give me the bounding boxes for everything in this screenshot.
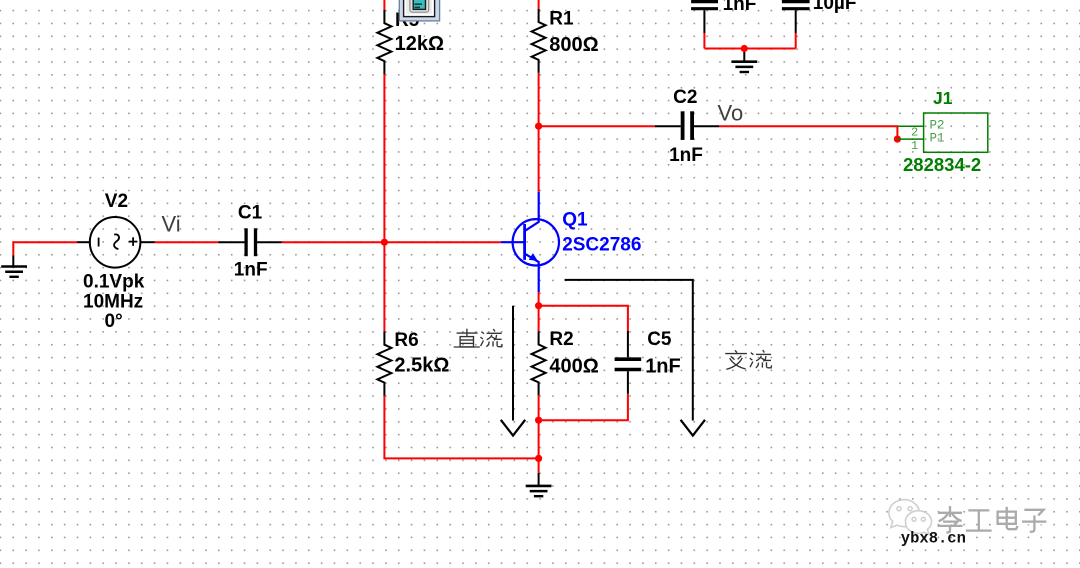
svg-text:C2: C2 xyxy=(673,87,697,108)
svg-text:ybx8.cn: ybx8.cn xyxy=(901,530,966,548)
svg-text:0°: 0° xyxy=(105,311,123,332)
svg-text:Q1: Q1 xyxy=(562,210,588,231)
svg-text:Vi: Vi xyxy=(162,212,181,237)
svg-text:0.1Vpk: 0.1Vpk xyxy=(83,271,145,292)
svg-text:10MHz: 10MHz xyxy=(83,292,143,313)
svg-text:10µF: 10µF xyxy=(813,0,857,14)
svg-text:P2: P2 xyxy=(930,119,945,133)
svg-text:J1: J1 xyxy=(933,88,953,108)
svg-text:1nF: 1nF xyxy=(669,145,703,166)
svg-text:1nF: 1nF xyxy=(645,355,681,377)
svg-text:2: 2 xyxy=(911,125,918,139)
svg-text:C5: C5 xyxy=(647,329,672,350)
svg-text:P1: P1 xyxy=(930,132,945,146)
svg-text:R1: R1 xyxy=(549,9,574,30)
svg-text:R2: R2 xyxy=(549,329,573,350)
svg-text:C1: C1 xyxy=(238,202,263,223)
svg-text:1: 1 xyxy=(911,139,918,153)
svg-text:R6: R6 xyxy=(394,330,418,351)
svg-text:1nF: 1nF xyxy=(234,260,268,281)
svg-text:282834-2: 282834-2 xyxy=(903,154,981,175)
svg-text:1nF: 1nF xyxy=(723,0,757,15)
svg-text:Vo: Vo xyxy=(718,101,744,126)
svg-text:400Ω: 400Ω xyxy=(549,355,598,377)
svg-text:2SC2786: 2SC2786 xyxy=(562,234,641,255)
svg-text:800Ω: 800Ω xyxy=(549,34,598,56)
svg-text:12kΩ: 12kΩ xyxy=(395,33,444,55)
svg-text:2.5kΩ: 2.5kΩ xyxy=(394,355,449,377)
svg-text:V2: V2 xyxy=(105,191,128,212)
